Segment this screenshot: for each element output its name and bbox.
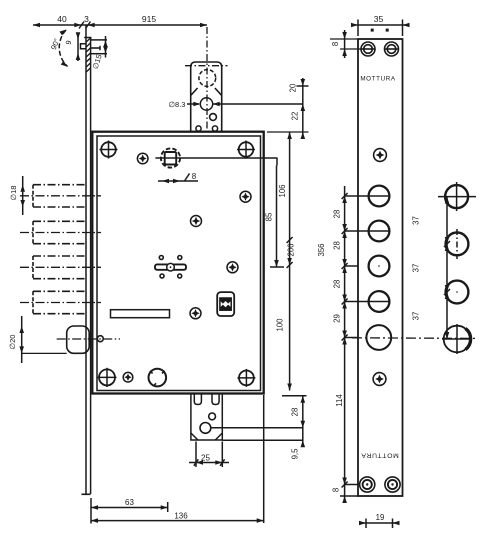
screw boss bottom-left bbox=[98, 368, 117, 387]
svg-text:MOTTURA: MOTTURA bbox=[361, 452, 399, 459]
plate cross screw top bbox=[374, 149, 387, 162]
lock body inner line bbox=[97, 136, 261, 391]
bottom tab big circle bbox=[200, 423, 211, 434]
svg-text:25: 25 bbox=[201, 453, 210, 462]
svg-text:28: 28 bbox=[333, 241, 342, 250]
leader from tab bottom bbox=[222, 439, 302, 441]
chain 28/9.5 bbox=[302, 396, 304, 446]
follower square hub bbox=[161, 148, 180, 167]
chain 106/206/100 bbox=[289, 132, 291, 391]
svg-text:∅8.3: ∅8.3 bbox=[169, 100, 186, 109]
latch pin circle bbox=[97, 336, 103, 342]
alt bolt circle 3 bbox=[446, 281, 469, 304]
plate cross screw bottom bbox=[373, 373, 386, 386]
svg-text:19: 19 bbox=[376, 513, 385, 522]
plate hole 5 bbox=[366, 325, 391, 350]
svg-text:20: 20 bbox=[288, 83, 297, 92]
top tab rivet right bbox=[212, 126, 217, 131]
svg-text:37: 37 bbox=[412, 216, 421, 225]
faceplate side strip bbox=[82, 26, 92, 495]
svg-text:63: 63 bbox=[125, 498, 134, 507]
bend detail right bracket bbox=[91, 36, 107, 58]
dim dia 18 bbox=[22, 176, 24, 215]
dim 8 under follower bbox=[158, 180, 198, 182]
plate hole 2 bbox=[369, 221, 390, 242]
phillips screw A bbox=[137, 153, 148, 164]
dim 63 bbox=[91, 498, 168, 524]
plate screw bottom-right bbox=[385, 477, 400, 492]
svg-text:8: 8 bbox=[332, 488, 341, 492]
svg-text:106: 106 bbox=[278, 184, 287, 197]
leader from big circle bbox=[211, 427, 303, 429]
svg-text:28: 28 bbox=[333, 280, 342, 289]
svg-text:22: 22 bbox=[291, 112, 300, 121]
svg-text:136: 136 bbox=[174, 511, 188, 520]
bottom tab strike bbox=[191, 395, 222, 441]
svg-text:MOTTURA: MOTTURA bbox=[360, 76, 396, 83]
plate screw top-right bbox=[385, 42, 399, 56]
plate hole 1 bbox=[369, 186, 390, 207]
phillips screw D bbox=[227, 262, 238, 273]
deadbolt 4 bbox=[33, 291, 86, 313]
svg-text:29: 29 bbox=[333, 314, 342, 323]
svg-text:8: 8 bbox=[192, 172, 197, 181]
svg-text:∅20: ∅20 bbox=[8, 335, 17, 350]
svg-text:37: 37 bbox=[412, 264, 421, 273]
bottom tab notch 2 bbox=[212, 395, 219, 405]
90 degree arc bbox=[59, 30, 67, 67]
svg-text:40: 40 bbox=[57, 14, 67, 24]
top tab rivet left bbox=[196, 126, 201, 131]
plate screw top-left bbox=[361, 42, 375, 56]
faceplate front view bbox=[358, 39, 403, 496]
bend detail left notch bbox=[81, 44, 87, 49]
dim 9 vertical bbox=[77, 33, 79, 61]
dim 35 bbox=[351, 20, 410, 37]
hole dia 8.3 bbox=[200, 98, 212, 110]
top tab plate bbox=[191, 62, 222, 131]
svg-text:915: 915 bbox=[142, 14, 156, 24]
svg-text:35: 35 bbox=[374, 14, 384, 24]
latch bolt bbox=[67, 326, 90, 353]
lever boss bbox=[167, 263, 175, 271]
screw boss top-right bbox=[237, 141, 255, 159]
top tab center lines bbox=[185, 65, 228, 67]
cylinder hole bottom bbox=[149, 369, 167, 387]
deadbolt 2 bbox=[33, 221, 86, 243]
phillips screw C bbox=[240, 191, 251, 202]
phillips screw E bbox=[190, 308, 201, 319]
lever rivet 4 bbox=[178, 274, 182, 278]
bottom tab notch 1 bbox=[194, 395, 201, 405]
svg-text:8: 8 bbox=[331, 42, 340, 46]
screw boss bottom-right bbox=[237, 369, 255, 387]
svg-text:9,5: 9,5 bbox=[290, 448, 299, 460]
alt bolt circle 2 bbox=[446, 233, 469, 256]
lever bar bbox=[155, 264, 186, 269]
chain 37/37/37 bbox=[446, 197, 448, 339]
svg-text:100: 100 bbox=[276, 318, 285, 332]
plate hole 4 bbox=[369, 291, 390, 312]
svg-text:28: 28 bbox=[291, 408, 300, 417]
phillips screw B bbox=[191, 216, 202, 227]
alt bolt circle 4 bbox=[444, 326, 471, 353]
svg-text:28: 28 bbox=[333, 210, 342, 219]
lock body outer case bbox=[92, 132, 263, 394]
dim dia 20 bbox=[21, 316, 23, 363]
screw boss top-left bbox=[100, 141, 118, 159]
dim 8 top bbox=[344, 30, 346, 58]
alt bolt circle 1 bbox=[445, 185, 468, 208]
svg-text:37: 37 bbox=[412, 312, 421, 321]
block component bbox=[217, 292, 234, 316]
deadbolt 1 bbox=[33, 185, 86, 207]
dim 25 bbox=[189, 442, 229, 468]
lever rivet 2 bbox=[178, 256, 182, 260]
chain 85 bbox=[276, 166, 278, 268]
bottom tab small circle bbox=[209, 413, 216, 420]
svg-text:∅18: ∅18 bbox=[9, 186, 18, 201]
lever rivet 3 bbox=[160, 274, 164, 278]
plate screw bottom-left bbox=[360, 477, 375, 492]
chain 28/28/28/29/114/8 bbox=[344, 186, 346, 502]
top dimension line 40/3/915 bbox=[33, 22, 207, 29]
deadbolt 3 bbox=[33, 256, 86, 279]
phillips screw F bbox=[123, 372, 133, 382]
top tab large hole bbox=[199, 70, 216, 87]
svg-text:114: 114 bbox=[335, 394, 344, 407]
plate hole 3 bbox=[369, 256, 390, 277]
dim arrows top bbox=[33, 23, 40, 28]
dim 19 bottom bbox=[359, 519, 400, 529]
top tab bend notches bbox=[191, 88, 198, 96]
svg-text:206: 206 bbox=[286, 243, 295, 256]
svg-text:356: 356 bbox=[317, 243, 326, 256]
svg-text:85: 85 bbox=[265, 212, 274, 221]
dim 136 bbox=[91, 395, 264, 523]
follower center line bbox=[155, 157, 277, 159]
slot opening bbox=[111, 310, 170, 318]
strip hatching bbox=[86, 38, 90, 72]
top tab small circle bbox=[210, 114, 217, 121]
chain 20/22 bbox=[302, 78, 304, 139]
lever rivet 1 bbox=[159, 256, 163, 260]
svg-text:3: 3 bbox=[84, 14, 89, 24]
